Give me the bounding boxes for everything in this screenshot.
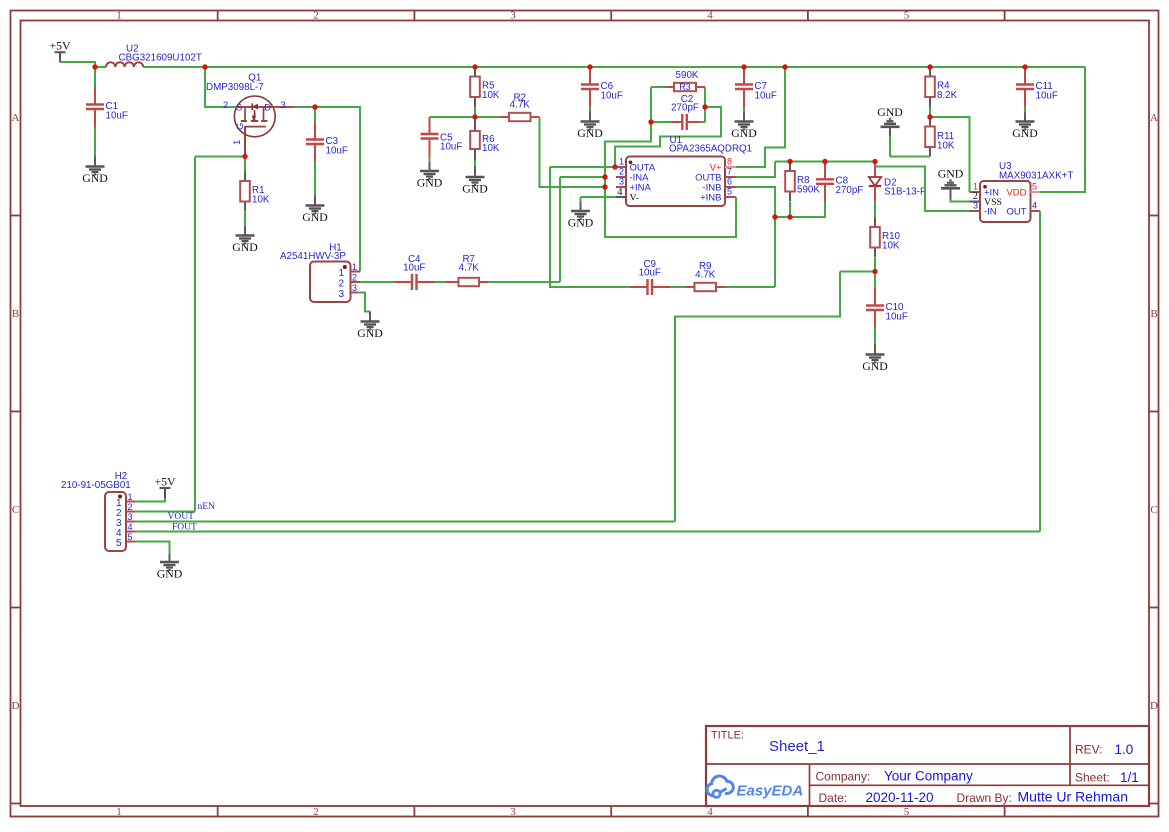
wire rail (143, 66, 205, 68)
connector H2 210-91-05GB01 (61, 471, 135, 551)
svg-text:VOUT: VOUT (168, 512, 195, 522)
svg-text:7: 7 (727, 167, 732, 177)
svg-text:C: C (1150, 504, 1157, 516)
svg-text:OPA2365AQDRQ1: OPA2365AQDRQ1 (669, 144, 752, 155)
resistor R5 (470, 67, 500, 107)
node pin1 OUTA (612, 164, 617, 169)
svg-text:GND: GND (731, 126, 757, 140)
capacitor C9 (630, 259, 670, 295)
svg-text:A: A (12, 112, 20, 124)
ground GND at R1 (232, 236, 258, 255)
svg-text:3: 3 (510, 806, 516, 818)
svg-text:Drawn By:: Drawn By: (957, 791, 1012, 805)
wire pin2-pin3 link (604, 177, 606, 187)
svg-text:GND: GND (82, 171, 108, 185)
wire R3 right riser (704, 87, 706, 122)
svg-text:TITLE:: TITLE: (711, 730, 744, 742)
svg-text:4: 4 (707, 806, 713, 818)
svg-text:10uF: 10uF (326, 146, 348, 157)
node rail at V+ riser (782, 64, 787, 69)
wire R7 out (489, 281, 561, 283)
wire OUT down (1039, 211, 1041, 532)
svg-text:1: 1 (352, 262, 357, 272)
capacitor C4 (395, 254, 435, 290)
svg-text:DMP3098L-7: DMP3098L-7 (206, 82, 264, 93)
svg-text:CBG321609U102T: CBG321609U102T (119, 53, 202, 64)
wire R7 riser to -INA (559, 177, 561, 282)
svg-text:2: 2 (223, 100, 228, 111)
ground GND at R11 (inverted) (889, 127, 891, 136)
resistor R9 (686, 261, 726, 291)
svg-text:1/1: 1/1 (1120, 770, 1139, 785)
node rail at Q1 source drop (202, 64, 207, 69)
svg-text:2: 2 (338, 279, 344, 290)
svg-text:D: D (1150, 700, 1158, 712)
wire H2 pin1 to +5V (135, 498, 165, 502)
wire VOUT route (675, 272, 840, 522)
svg-text:4: 4 (707, 10, 713, 22)
ground GND at H1 (357, 322, 383, 341)
node pin3 +INA (602, 184, 607, 189)
resistor R4 (925, 67, 957, 107)
wire VOUT row (135, 521, 675, 523)
capacitor C7 (735, 67, 777, 107)
svg-text:10uF: 10uF (886, 312, 908, 323)
connector H1 A2541HWV-3P (280, 243, 360, 303)
svg-text:1.0: 1.0 (1115, 742, 1134, 757)
svg-text:Mutte Ur Rehman: Mutte Ur Rehman (1018, 789, 1128, 805)
svg-text:G: G (235, 123, 246, 130)
wire R10 bottom (874, 258, 876, 272)
+5V power port at H2 (154, 475, 176, 499)
svg-text:4.7K: 4.7K (695, 270, 716, 281)
svg-text:Date:: Date: (819, 791, 848, 805)
wire VOUT branch (840, 271, 875, 273)
ground GND at H2 (157, 562, 183, 581)
resistor R6 (474, 117, 476, 131)
wire drain to H1 pin1 (315, 107, 360, 272)
svg-text:A: A (1150, 112, 1158, 124)
wire V- ground drop (580, 197, 582, 202)
node R4/R11 divider (927, 114, 932, 119)
wire R2 to +INA (540, 117, 606, 187)
svg-text:GND: GND (357, 326, 383, 340)
node VOUT at R10/C10 (872, 269, 877, 274)
wire to C3 (314, 107, 316, 122)
node at D2 anode (872, 159, 877, 164)
transistor Q1 DMP3098L-7 (206, 73, 294, 157)
wire rail (930, 66, 1025, 68)
wire R5 to divider node (474, 107, 476, 117)
svg-text:D: D (12, 700, 20, 712)
svg-text:3: 3 (973, 201, 978, 211)
svg-text:4: 4 (617, 187, 623, 198)
svg-text:3: 3 (338, 289, 344, 300)
svg-text:10K: 10K (252, 195, 270, 206)
resistor R1 (240, 172, 270, 212)
wire +INB loop (605, 187, 736, 237)
svg-text:nEN: nEN (198, 502, 216, 512)
svg-text:10K: 10K (937, 141, 955, 152)
wire rail (205, 66, 475, 68)
wire rail (785, 66, 930, 68)
resistor R10 (870, 218, 900, 258)
resistor R2 (500, 93, 540, 122)
svg-text:A2541HWV-3P: A2541HWV-3P (280, 251, 346, 262)
svg-text:B: B (12, 308, 19, 320)
wire Q1 drain (294, 106, 315, 108)
ground GND at C3 (302, 206, 328, 225)
svg-text:2: 2 (313, 806, 319, 818)
svg-text:210-91-05GB01: 210-91-05GB01 (61, 480, 131, 491)
wire C6 to ground (589, 107, 591, 113)
wire feedback to -INA riser (605, 122, 651, 177)
node OUTA feedback tap (702, 104, 707, 109)
wire to C6 (589, 66, 591, 68)
svg-text:GND: GND (462, 182, 488, 196)
diode D2 S1B-13-F (869, 162, 926, 202)
wire H1 pin3 to ground (358, 293, 370, 312)
ground GND at R6 (462, 177, 488, 196)
wire nEN vertical (194, 157, 196, 512)
svg-text:2: 2 (128, 502, 133, 512)
svg-text:1: 1 (338, 268, 344, 279)
node R5/R6/R2/C5 (472, 114, 477, 119)
svg-text:10uF: 10uF (601, 91, 623, 102)
wire -INA left (560, 176, 605, 178)
svg-text:D: D (264, 103, 271, 114)
wire R3 left (651, 86, 665, 88)
svg-text:3: 3 (280, 100, 285, 111)
svg-text:OUT: OUT (1006, 207, 1026, 218)
node -INB / R8 / C8 (772, 214, 777, 219)
wire rail (475, 66, 590, 68)
wire H1 pin2 to C4 (360, 281, 395, 283)
node R8/C8 bottom (787, 214, 792, 219)
wire V- to ground (581, 196, 617, 198)
op-amp U1 OPA2365AQDRQ1 (615, 135, 752, 206)
capacitor C5 (429, 117, 431, 134)
svg-text:Company:: Company: (816, 770, 871, 784)
capacitor C6 (581, 67, 623, 107)
svg-text:2: 2 (619, 167, 624, 177)
svg-text:10uF: 10uF (639, 268, 661, 279)
svg-text:10K: 10K (482, 90, 500, 101)
svg-text:3: 3 (619, 177, 624, 187)
wire feedback to OUTA (615, 107, 721, 167)
svg-text:GND: GND (232, 240, 258, 254)
wire rail (95, 66, 106, 68)
svg-text:REV:: REV: (1075, 743, 1103, 757)
node at R8 top (787, 159, 792, 164)
wire C10 to ground (874, 328, 876, 345)
svg-text:2020-11-20: 2020-11-20 (866, 790, 934, 805)
node rail at C6 (587, 64, 592, 69)
capacitor C1 (86, 87, 128, 127)
svg-text:1: 1 (973, 182, 978, 192)
wire -INB riser (736, 187, 775, 217)
wire gate node to R1 (244, 157, 246, 172)
svg-text:8.2K: 8.2K (937, 90, 958, 101)
svg-text:10uF: 10uF (106, 111, 128, 122)
svg-text:Sheet:: Sheet: (1075, 771, 1110, 785)
svg-text:2: 2 (313, 10, 319, 22)
svg-text:5: 5 (1032, 182, 1037, 192)
wire OUTA left (550, 166, 615, 168)
ground GND at C10 (862, 355, 888, 374)
wire R3 left riser (650, 87, 652, 122)
wire rail (590, 66, 744, 68)
wire R11 ground riser (889, 135, 891, 157)
svg-text:GND: GND (577, 126, 603, 140)
ground GND at C1 (82, 167, 108, 186)
svg-text:-IN: -IN (984, 207, 997, 218)
wire rail to Q1 source (205, 67, 237, 107)
wire R11 to ground (890, 156, 930, 158)
ground GND at C5 (417, 171, 443, 190)
svg-text:1: 1 (232, 140, 243, 145)
wire C9 to R9 (670, 286, 686, 288)
wire H2 pin5 to ground (135, 542, 170, 555)
resistor R11 (929, 117, 931, 127)
svg-text:GND: GND (417, 176, 443, 190)
svg-text:1: 1 (619, 157, 624, 167)
svg-text:1: 1 (128, 492, 133, 502)
svg-text:+5V: +5V (49, 39, 71, 53)
wire divider row (430, 116, 501, 118)
ground bars at VSS (938, 166, 964, 188)
node Q1 drain at C3 (312, 104, 317, 109)
+5V power port (49, 39, 71, 63)
resistor R7 (446, 254, 489, 286)
wire OUTA down to C9 (550, 167, 630, 287)
svg-text:3: 3 (352, 283, 357, 293)
wire C2 left (651, 121, 671, 123)
wire nEN horizontal (195, 156, 245, 158)
wire VSS ground (951, 200, 970, 202)
ground GND at U3 VSS (inverted) (950, 189, 952, 200)
svg-text:VDD: VDD (1006, 188, 1026, 199)
ground bars at R11 (877, 105, 903, 127)
node rail at R4 (927, 64, 932, 69)
wire rail to VDD (1025, 66, 1085, 68)
ground GND at C6 (577, 122, 603, 141)
svg-text:6: 6 (727, 177, 732, 187)
svg-text:EasyEDA: EasyEDA (737, 783, 804, 800)
svg-text:B: B (1150, 308, 1157, 320)
wire R9 to -INB riser (725, 286, 775, 288)
svg-text:8: 8 (727, 157, 732, 167)
svg-text:1: 1 (116, 10, 122, 22)
svg-text:GND: GND (862, 359, 888, 373)
ground GND at U1 V- (568, 211, 594, 230)
svg-text:Sheet_1: Sheet_1 (769, 738, 825, 755)
wire R6 to ground (474, 160, 476, 166)
svg-text:C: C (12, 504, 19, 516)
svg-text:1: 1 (116, 806, 122, 818)
wire R4 bottom (929, 107, 931, 117)
resistor R8 (785, 162, 820, 202)
wire C4 to R7 (435, 281, 447, 283)
wire D2 node to -IN of U3 (876, 167, 970, 212)
wire OUTB net row (775, 161, 875, 163)
svg-text:3: 3 (510, 10, 516, 22)
svg-text:4: 4 (128, 522, 133, 532)
svg-text:2: 2 (352, 273, 357, 283)
wire C1 to ground (94, 127, 96, 157)
svg-text:GND: GND (1012, 126, 1038, 140)
svg-text:MAX9031AXK+T: MAX9031AXK+T (999, 171, 1073, 182)
node rail at C7 (741, 64, 746, 69)
capacitor C10 (866, 288, 908, 328)
wire R8 bottom (789, 202, 791, 217)
svg-text:5: 5 (904, 10, 910, 22)
svg-text:270pF: 270pF (836, 185, 864, 196)
wire FOUT row (135, 531, 1040, 533)
svg-text:4.7K: 4.7K (459, 263, 480, 274)
node pin2 -INA (602, 174, 607, 179)
wire C7 to ground (743, 107, 745, 113)
svg-text:+INB: +INB (700, 193, 721, 204)
svg-text:V-: V- (630, 193, 639, 204)
wire D2 to R10 (874, 201, 876, 218)
wire to C10 (874, 272, 876, 289)
svg-text:GND: GND (157, 567, 183, 581)
wire R1 to ground (244, 212, 246, 227)
svg-text:10uF: 10uF (403, 263, 425, 274)
svg-text:5: 5 (727, 187, 732, 197)
svg-text:10uF: 10uF (755, 91, 777, 102)
svg-text:590K: 590K (676, 70, 699, 81)
svg-text:Your Company: Your Company (884, 769, 973, 784)
wire divider to +IN (930, 117, 970, 192)
ground GND at C7 (731, 122, 757, 141)
svg-text:10uF: 10uF (1036, 91, 1058, 102)
capacitor C3 (306, 122, 348, 162)
node rail at C11 (1022, 64, 1027, 69)
wire C3 to ground (314, 162, 316, 196)
wire C8 bottom row (775, 202, 825, 218)
svg-text:S1B-13-F: S1B-13-F (884, 187, 926, 198)
wire OUTB to feedback rail (736, 162, 775, 178)
svg-text:5: 5 (128, 532, 133, 542)
wire C5 to ground (429, 157, 431, 162)
svg-text:270pF: 270pF (671, 103, 699, 114)
title block (706, 726, 1149, 806)
svg-text:GND: GND (938, 166, 964, 180)
svg-text:R3: R3 (679, 82, 691, 92)
node R3/C2 left (648, 119, 653, 124)
wire VDD to rail (1040, 67, 1085, 192)
node at C8 top (822, 159, 827, 164)
svg-text:S: S (236, 103, 242, 114)
wire rail (744, 66, 785, 68)
svg-text:3: 3 (128, 512, 133, 522)
svg-text:590K: 590K (797, 185, 820, 196)
wire C11 to ground (1024, 107, 1026, 113)
svg-text:10uF: 10uF (440, 142, 462, 153)
capacitor C11 (1016, 67, 1058, 107)
svg-text:4.7K: 4.7K (510, 100, 531, 111)
svg-text:FOUT: FOUT (172, 523, 197, 533)
node +5V rail junction at C1 (92, 64, 97, 69)
svg-text:10K: 10K (482, 143, 500, 154)
node Q1 gate / R1 / nEN (242, 154, 247, 159)
capacitor C8 270pF (824, 162, 826, 180)
wire C2 right (700, 121, 705, 123)
svg-text:10K: 10K (882, 241, 900, 252)
svg-text:GND: GND (877, 105, 903, 119)
wire to C1 (94, 67, 96, 87)
svg-text:4: 4 (1032, 201, 1037, 211)
EasyEDA logo (707, 776, 803, 799)
wire +5V to rail (60, 62, 95, 67)
wire V+ to rail (736, 67, 785, 167)
node rail at R5 (472, 64, 477, 69)
svg-text:GND: GND (302, 210, 328, 224)
svg-text:5: 5 (116, 538, 122, 549)
comparator U3 MAX9031AXK+T (970, 161, 1074, 222)
wire -INB to R9 (774, 217, 776, 287)
svg-text:GND: GND (568, 216, 594, 230)
wire H2 pin2 nEN (135, 511, 195, 513)
ground GND at C11 (1012, 122, 1038, 141)
svg-text:5: 5 (904, 806, 910, 818)
inductor U2 CBG321609U102T (106, 62, 143, 67)
svg-text:+5V: +5V (154, 475, 176, 489)
